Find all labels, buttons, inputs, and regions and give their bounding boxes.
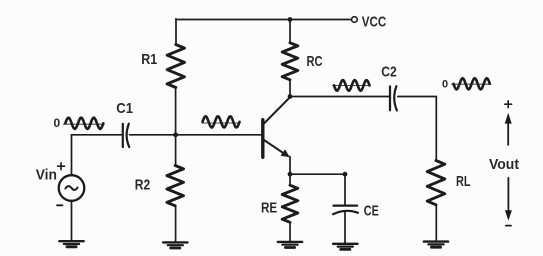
wire CE top lead — [344, 174, 346, 205]
node base waveform — [202, 116, 240, 127]
Vout up arrow — [505, 113, 512, 145]
wire Vin to ground — [71, 201, 73, 241]
capacitor C2 — [390, 86, 397, 110]
node collector waveform — [333, 80, 370, 91]
wire collector node to C2 — [290, 96, 389, 98]
resistor R1 — [167, 45, 184, 88]
node output waveform 0 — [452, 78, 491, 89]
svg-text:RE: RE — [261, 199, 277, 216]
Vout minus sign — [506, 225, 511, 227]
resistor RE — [282, 185, 298, 222]
wire RL bottom lead — [435, 205, 437, 242]
wire RC top lead — [289, 20, 291, 43]
svg-text:C1: C1 — [116, 100, 133, 117]
wire RC bottom lead to collector node — [289, 80, 291, 97]
wire RE bottom lead — [289, 222, 291, 241]
svg-text:RL: RL — [456, 173, 471, 190]
ground at RL — [424, 242, 448, 248]
node collector junction — [288, 94, 293, 99]
ground at CE — [333, 244, 357, 250]
Vout plus sign — [505, 101, 512, 108]
capacitor C1 — [123, 124, 129, 147]
Vin minus sign — [57, 204, 62, 206]
wire top VCC rail — [176, 19, 351, 21]
svg-text:0: 0 — [54, 116, 61, 130]
ground at Vin — [59, 241, 83, 247]
resistor RL — [427, 161, 445, 205]
svg-text:R1: R1 — [141, 51, 157, 68]
svg-text:Vin: Vin — [36, 167, 57, 184]
wire R2 bottom lead — [175, 206, 177, 243]
Vin plus sign — [58, 163, 65, 170]
wire R1 top lead — [175, 19, 177, 45]
wire R2 top lead — [175, 135, 177, 166]
node emitter junction — [288, 172, 293, 177]
svg-text:VCC: VCC — [362, 13, 387, 30]
node VCC rail junction — [288, 17, 293, 22]
svg-text:C2: C2 — [381, 64, 397, 81]
wire C2 to RL corner — [398, 97, 437, 161]
capacitor CE — [333, 206, 358, 215]
svg-text:CE: CE — [364, 203, 379, 220]
resistor R2 — [167, 166, 184, 206]
wire R1 bottom lead to base node — [175, 88, 177, 135]
ground at R2 — [163, 242, 187, 248]
wire emitter node to CE branch — [290, 173, 345, 175]
svg-text:Vout: Vout — [489, 156, 519, 173]
wire RE top lead — [289, 174, 291, 185]
wire Vin riser — [71, 135, 73, 176]
ground at RE — [278, 242, 302, 248]
node input waveform 0 — [64, 118, 105, 129]
source Vin circle — [59, 175, 85, 201]
source Vin tilde — [65, 186, 77, 190]
svg-text:R2: R2 — [135, 176, 151, 193]
wire emitter to node — [289, 157, 291, 175]
resistor RC — [282, 43, 298, 80]
wire C1 to base — [130, 134, 262, 136]
node CE junction — [343, 172, 348, 177]
svg-text:RC: RC — [307, 53, 323, 70]
wire input to C1 — [72, 134, 123, 136]
svg-text:0: 0 — [442, 79, 448, 91]
transistor Q1 — [263, 97, 290, 157]
VCC terminal circle — [352, 17, 358, 23]
wire CE bottom lead — [344, 213, 346, 244]
node base junction — [173, 132, 178, 137]
Vout down arrow — [505, 178, 512, 221]
